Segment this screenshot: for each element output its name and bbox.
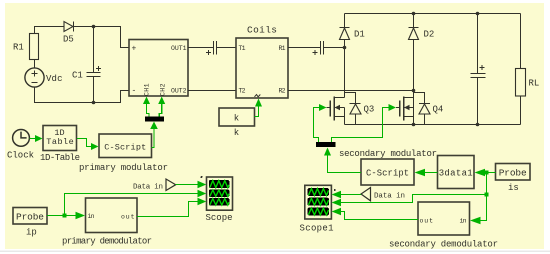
svg-text:secondary demodulator: secondary demodulator	[389, 240, 498, 250]
trigger dot near Scope	[201, 176, 203, 178]
primary converter block U1	[129, 40, 188, 97]
svg-text:Scope: Scope	[206, 213, 233, 223]
label 1D-Table	[40, 153, 80, 163]
svg-text:-: -	[132, 87, 137, 96]
wire secondary mux to Q4 gate	[332, 104, 397, 142]
transistor Q4	[396, 91, 430, 125]
wire clock to 1D Table	[29, 135, 42, 142]
wire 3data1 to C-Script U3	[415, 169, 438, 176]
svg-text:CH2: CH2	[160, 83, 167, 96]
label secondary demodulator	[389, 240, 498, 250]
svg-text:R1: R1	[13, 43, 24, 53]
svg-text:D1: D1	[354, 30, 365, 40]
diode D5	[64, 22, 74, 32]
capacitor C4 (output)	[471, 14, 486, 125]
primary block port labels	[132, 45, 187, 97]
Coils port labels	[239, 45, 286, 95]
capacitor C1	[87, 27, 102, 103]
wire probe is to 3data1	[475, 169, 496, 176]
svg-text:in: in	[460, 218, 467, 225]
wire junction up to Scope input 2	[65, 190, 207, 216]
wire demodulator out to Scope input 3	[137, 198, 206, 217]
wire cap to node C	[324, 47, 345, 49]
wire Coils R2 to node D	[288, 90, 414, 92]
green junction dot probe ip	[63, 214, 67, 218]
probe block is	[496, 164, 531, 181]
node dot Q4 bottom	[412, 123, 416, 127]
clock block	[13, 130, 30, 147]
label Q3	[364, 105, 375, 115]
wire mux to CH1	[143, 97, 150, 117]
svg-text:Probe: Probe	[16, 211, 44, 222]
label is	[508, 183, 519, 193]
svg-text:secondary modulator: secondary modulator	[339, 149, 437, 159]
diode D2	[409, 14, 419, 91]
scope1 waveform traces	[308, 189, 328, 215]
label Data in right	[374, 192, 405, 200]
from tag Data in (right)	[361, 188, 371, 201]
label ip	[26, 228, 37, 238]
svg-text:Q3: Q3	[364, 105, 375, 115]
svg-text:Clock: Clock	[7, 151, 34, 161]
green junction dot lower	[485, 193, 489, 197]
1D Table block	[43, 126, 77, 151]
svg-text:Table: Table	[46, 137, 74, 147]
wire OUT2 to T2	[188, 90, 236, 92]
node D dot	[412, 89, 416, 93]
wire demodulator out to Scope1 input 3	[332, 208, 418, 220]
label Clock	[7, 151, 34, 161]
svg-text:R2: R2	[279, 87, 286, 94]
label Scope1	[300, 224, 334, 234]
svg-text:D5: D5	[63, 35, 74, 45]
svg-text:out: out	[121, 214, 135, 221]
node B dot	[92, 101, 96, 105]
wire Coils R1 to series cap	[288, 47, 321, 49]
svg-text:Q4: Q4	[433, 105, 444, 115]
wire node A to primary block + input	[94, 27, 130, 48]
svg-text:CH1: CH1	[144, 83, 151, 96]
C-Script U2 inner text	[104, 143, 146, 153]
label D5	[63, 35, 74, 45]
svg-text:C1: C1	[72, 71, 83, 81]
node C dot	[343, 46, 347, 50]
mux bar primary	[145, 117, 164, 122]
node dots output cap	[476, 12, 480, 127]
node A dot	[92, 25, 96, 29]
svg-text:T1: T1	[239, 45, 246, 52]
svg-text:C-Script: C-Script	[366, 169, 409, 179]
svg-text:Vdc: Vdc	[46, 74, 63, 84]
svg-text:primary demodulator: primary demodulator	[62, 237, 152, 247]
scope waveform traces	[210, 181, 229, 205]
svg-text:T2: T2	[239, 87, 246, 94]
wire Vdc bottom rail to primary block - input	[35, 87, 130, 103]
resistor R1	[30, 34, 39, 60]
svg-text:Coils: Coils	[247, 25, 277, 36]
svg-text:R1: R1	[279, 45, 286, 52]
svg-text:k: k	[234, 128, 239, 138]
magnetic marker on Coils bottom	[255, 95, 261, 97]
label D2	[424, 30, 435, 40]
probe block ip	[13, 208, 47, 225]
1D Table inner text	[46, 128, 74, 147]
label Data in left	[133, 184, 163, 192]
bottom rail secondary	[345, 124, 521, 126]
label primary modulator	[79, 163, 168, 173]
svg-text:primary modulator: primary modulator	[79, 163, 168, 173]
svg-text:Scope1: Scope1	[300, 224, 334, 234]
svg-text:Data in: Data in	[374, 192, 405, 200]
wire probe ip to primary demodulator	[47, 212, 85, 219]
wire from tag to Scope1 input 1	[332, 191, 361, 198]
svg-text:Probe: Probe	[499, 167, 527, 178]
wire mux to CH2	[158, 97, 165, 117]
C-Script block U3	[361, 159, 414, 185]
gain block k	[219, 108, 255, 126]
wire cap to T1	[217, 47, 237, 49]
label Vdc	[46, 74, 63, 84]
capacitor C2 (primary series)	[206, 41, 217, 55]
wire secondary mux to Q3 gate	[314, 104, 327, 142]
svg-text:C-Script: C-Script	[104, 143, 146, 153]
goto tag Data in (left)	[166, 179, 176, 191]
svg-text:OUT2: OUT2	[171, 87, 187, 94]
svg-text:is: is	[508, 183, 519, 193]
k block inner text	[234, 114, 239, 124]
3data1 inner text	[439, 169, 473, 179]
demux block 3data1	[438, 156, 475, 189]
wire D5 to node A	[74, 26, 94, 28]
top rail	[345, 13, 521, 15]
node dot top rail D2	[412, 12, 416, 16]
primary demodulator block	[86, 198, 138, 233]
svg-text:RL: RL	[529, 79, 540, 89]
svg-text:in: in	[88, 213, 95, 220]
probe is inner text	[499, 167, 527, 178]
wire C-Script up to primary mux bar	[150, 122, 158, 148]
C-Script U3 inner text	[366, 169, 409, 179]
svg-text:out: out	[420, 218, 434, 225]
wire OUT1 to series cap	[188, 47, 214, 49]
svg-text:k: k	[234, 114, 239, 124]
green junction dot at probe is wire	[485, 171, 489, 175]
label Scope	[206, 213, 233, 223]
wire C-Script U3 up to secondary mux bar	[324, 148, 361, 173]
scope block Scope	[207, 177, 233, 210]
svg-text:+: +	[132, 45, 137, 54]
probe ip inner text	[16, 211, 44, 222]
wire junction down to demodulator in	[470, 173, 487, 225]
label Coils	[247, 25, 277, 36]
svg-text:3data1: 3data1	[439, 169, 473, 179]
resistor RL	[516, 14, 526, 125]
svg-text:OUT1: OUT1	[171, 45, 187, 52]
C-Script block U2	[99, 134, 152, 158]
capacitor C3 (secondary series)	[313, 41, 324, 55]
label RL	[529, 79, 540, 89]
label secondary modulator	[339, 149, 437, 159]
transformer block Coils	[236, 38, 288, 98]
svg-text:Data in: Data in	[133, 184, 163, 192]
label R1	[13, 43, 24, 53]
label C1	[72, 71, 83, 81]
label primary demodulator	[62, 237, 152, 247]
diode D1	[340, 14, 350, 48]
trigger dot near Scope1	[334, 189, 336, 191]
wire R1 top to D5	[35, 27, 65, 34]
wire goto tag to Scope input 1	[176, 181, 207, 188]
label Q4	[433, 105, 444, 115]
svg-text:1D-Table: 1D-Table	[40, 153, 80, 163]
mux bar secondary	[316, 142, 336, 147]
wire node C down to Q3 drain	[344, 48, 346, 98]
wire junction to Scope1 input 2	[332, 195, 487, 207]
label k	[234, 128, 239, 138]
wire k to Coils control pin	[255, 99, 263, 117]
scope block Scope1	[305, 185, 332, 219]
label D1	[354, 30, 365, 40]
secondary demodulator port labels	[420, 218, 467, 225]
primary demodulator port labels	[88, 213, 135, 221]
transistor Q3	[327, 93, 362, 125]
svg-text:D2: D2	[424, 30, 435, 40]
secondary demodulator block	[418, 202, 470, 235]
wire 1D Table to C-Script	[77, 139, 99, 151]
voltage source Vdc	[25, 60, 44, 88]
svg-text:ip: ip	[26, 228, 37, 238]
